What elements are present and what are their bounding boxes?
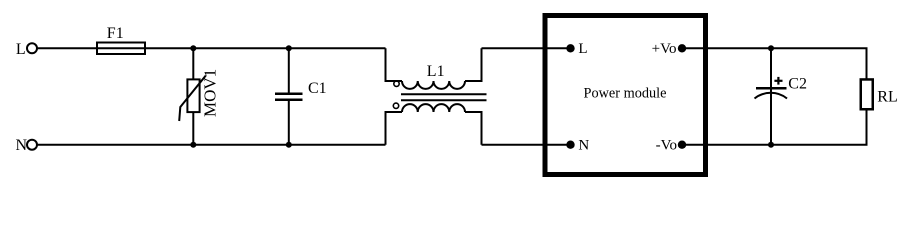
svg-text:L1: L1 [427, 63, 445, 80]
svg-text:N: N [578, 138, 589, 154]
fuse F1 [97, 25, 145, 54]
svg-text:C2: C2 [788, 76, 807, 93]
terminal L [16, 41, 37, 58]
polarity dot bottom [393, 103, 398, 108]
core line 2 [401, 99, 487, 101]
bottom winding arcs [402, 104, 465, 112]
svg-text:L: L [578, 41, 587, 57]
wire choke to module L input [482, 47, 571, 49]
svg-text:MOV1: MOV1 [201, 69, 220, 117]
capacitor C1 [275, 80, 327, 100]
wire module -Vo to RL bottom [682, 109, 867, 145]
wire choke to module N input [482, 144, 571, 146]
wire bottom winding right lead [465, 112, 482, 145]
capacitor C2 (polarized) [755, 76, 807, 99]
node junction bottom MOV1 [190, 142, 196, 148]
svg-text:+Vo: +Vo [652, 41, 677, 57]
svg-text:-Vo: -Vo [656, 138, 677, 154]
svg-text:N: N [16, 137, 28, 154]
node junction top C1 [286, 45, 292, 51]
pin L [566, 41, 587, 57]
terminal N [16, 137, 38, 154]
wire module +Vo to RL top [682, 48, 867, 79]
wire C1 bottom lead [288, 101, 290, 145]
node junction bottom C1 [286, 142, 292, 148]
varistor MOV1 [179, 69, 219, 121]
wire top main L to choke [37, 47, 386, 49]
svg-text:L: L [16, 41, 26, 58]
power module U1 [545, 16, 706, 175]
node junction top C2 [768, 45, 774, 51]
svg-text:RL: RL [877, 89, 897, 106]
svg-text:C1: C1 [308, 80, 327, 97]
svg-text:F1: F1 [107, 25, 124, 42]
polarity dot top [394, 81, 399, 86]
resistor RL [861, 79, 898, 109]
pin +Vo [652, 41, 687, 57]
node junction bottom C2 [768, 142, 774, 148]
wire bottom main N to choke [37, 144, 386, 146]
wire MOV1 top lead [192, 48, 194, 79]
pin -Vo [656, 138, 687, 154]
wire C2 top lead [770, 48, 772, 87]
wire C1 top lead [288, 48, 290, 93]
wire C2 bottom lead [770, 90, 772, 145]
node junction top MOV1 [190, 45, 196, 51]
wire MOV1 bottom lead [192, 112, 194, 145]
wire top winding left lead [386, 48, 403, 81]
svg-text:Power module: Power module [584, 86, 667, 102]
wire bottom winding left lead [386, 112, 403, 145]
common-mode choke L1 [386, 48, 487, 144]
top winding arcs [402, 81, 465, 89]
wire top winding right lead [465, 48, 482, 81]
pin N [566, 138, 589, 154]
core line 1 [401, 93, 487, 95]
